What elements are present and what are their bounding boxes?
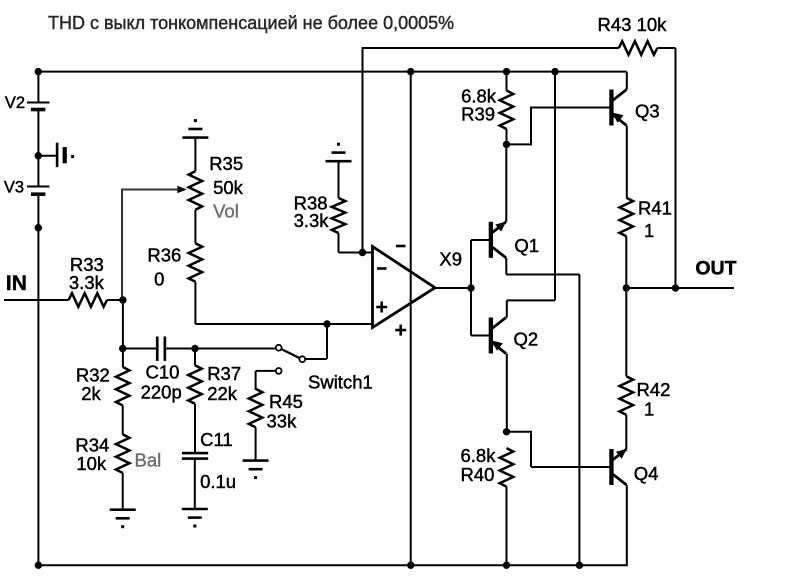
svg-text:R36: R36	[147, 244, 181, 265]
svg-text:Q4: Q4	[634, 463, 659, 484]
svg-text:6.8k: 6.8k	[461, 445, 497, 466]
svg-text:1: 1	[644, 398, 654, 419]
svg-text:3.3k: 3.3k	[294, 210, 330, 231]
svg-text:R45: R45	[269, 391, 303, 412]
svg-text:V2: V2	[5, 94, 25, 112]
svg-text:50k: 50k	[213, 177, 244, 198]
svg-text:R41: R41	[638, 198, 672, 219]
svg-text:C10: C10	[146, 362, 180, 383]
svg-text:22k: 22k	[207, 383, 238, 404]
svg-text:THD с выкл тонкомпенсацией не: THD с выкл тонкомпенсацией не более 0,00…	[48, 13, 454, 33]
svg-text:1: 1	[644, 220, 654, 241]
svg-text:V3: V3	[4, 179, 24, 197]
svg-text:R40: R40	[461, 464, 495, 485]
svg-text:10k: 10k	[76, 453, 107, 474]
svg-text:IN: IN	[6, 272, 27, 295]
svg-text:R35: R35	[209, 153, 243, 174]
svg-text:Bal: Bal	[135, 450, 162, 471]
svg-text:X9: X9	[439, 248, 462, 269]
svg-text:220p: 220p	[141, 381, 182, 402]
svg-text:R43 10k: R43 10k	[598, 14, 668, 35]
svg-text:OUT: OUT	[695, 258, 736, 280]
svg-text:R42: R42	[637, 379, 671, 400]
svg-text:Q2: Q2	[514, 329, 539, 350]
svg-text:0: 0	[154, 268, 164, 289]
svg-text:R37: R37	[207, 363, 241, 384]
svg-text:33k: 33k	[267, 411, 298, 432]
svg-text:0.1u: 0.1u	[200, 471, 236, 492]
svg-text:R39: R39	[461, 104, 495, 125]
svg-text:C11: C11	[200, 429, 233, 450]
svg-text:3.3k: 3.3k	[69, 272, 105, 293]
svg-text:2k: 2k	[81, 383, 101, 404]
svg-text:Q3: Q3	[635, 101, 660, 122]
svg-text:Q1: Q1	[514, 235, 539, 256]
svg-text:Switch1: Switch1	[308, 371, 373, 392]
svg-text:Vol: Vol	[213, 200, 239, 221]
